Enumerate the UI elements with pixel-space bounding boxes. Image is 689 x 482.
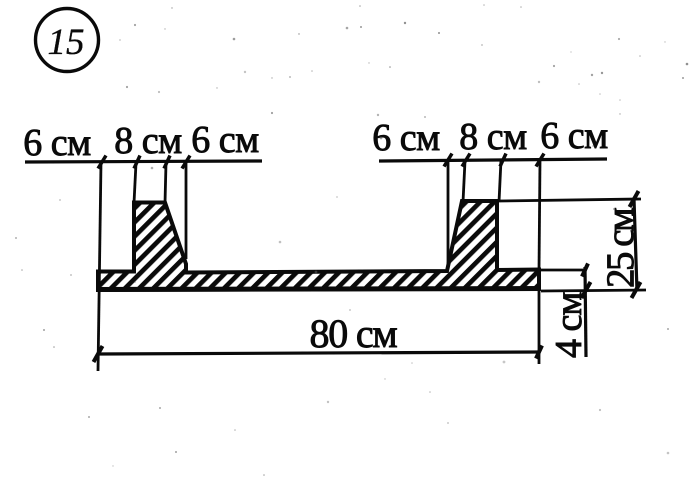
figure number circle 15 <box>36 9 99 72</box>
svg-text:6 см: 6 см <box>23 122 91 164</box>
ticks top-left <box>98 156 190 169</box>
4 cm dimension at right <box>539 269 586 272</box>
80 cm dimension at bottom <box>538 290 541 364</box>
svg-text:4 см: 4 см <box>548 292 590 358</box>
svg-text:80 см: 80 см <box>309 311 397 356</box>
svg-text:6 см: 6 см <box>540 115 608 157</box>
extension lines top-left <box>98 162 186 371</box>
svg-text:25 см: 25 см <box>599 208 642 288</box>
svg-text:15: 15 <box>48 22 85 63</box>
plate bottom edge thick <box>96 289 541 290</box>
25 cm dimension at right <box>499 199 641 201</box>
ticks top-right <box>444 154 544 167</box>
svg-text:6 см: 6 см <box>372 117 440 159</box>
top-left dimension line <box>25 161 262 162</box>
extension lines top-right <box>448 160 540 271</box>
svg-text:8 см: 8 см <box>114 120 182 162</box>
top-right dimension line <box>379 159 607 161</box>
profile cross-section: plate with two trapezoidal ribs, hatched <box>98 201 539 290</box>
svg-text:8 см: 8 см <box>459 116 527 158</box>
svg-text:6 см: 6 см <box>191 119 259 161</box>
